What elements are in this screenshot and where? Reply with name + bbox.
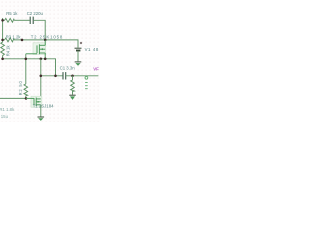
node dot L (26,98.4) xyxy=(25,97,28,100)
node dot K (72.5,75.8) xyxy=(71,75,74,78)
battery V1 xyxy=(75,42,83,62)
node dot H (45.2,58.8) xyxy=(44,58,47,61)
wire low y=75.8 left part xyxy=(41,75,63,77)
transistor T1 body box xyxy=(31,96,42,107)
node dot F (25.8,58.8) xyxy=(25,58,28,61)
T1 arrow xyxy=(38,101,40,103)
ground (R6) xyxy=(69,95,75,100)
wire R5 to C2 xyxy=(15,19,30,21)
wire low y=75.8 right part, ends at VF xyxy=(66,75,99,77)
wire C2 to corner and drop to main wire xyxy=(34,20,45,40)
transistor T2 body box xyxy=(33,43,46,55)
resistor R3 xyxy=(3,38,15,42)
transistor T2 2SK1058 xyxy=(26,44,45,54)
node dot D (45.2,39.9) xyxy=(44,39,47,42)
wire left rail top xyxy=(2,18,4,41)
svg-text:V1 48: V1 48 xyxy=(85,47,99,52)
node dot G (40.8,58.8) xyxy=(40,58,43,61)
wire mid y=58.8 xyxy=(3,59,56,76)
inductor-style rotated value marks xyxy=(85,76,88,88)
capacitor C1 xyxy=(63,72,66,79)
svg-text:R1 1.8k: R1 1.8k xyxy=(0,107,15,112)
svg-text:R3 1.2k: R3 1.2k xyxy=(6,34,22,39)
svg-text:T1 2SJ184: T1 2SJ184 xyxy=(33,104,54,109)
node dot J (55.5,75.8) xyxy=(54,75,57,78)
node dot B (2.6,39.9) xyxy=(1,39,4,42)
transistor T1 2SJ184 xyxy=(26,98,41,107)
resistor R4 (vertical, left rail) xyxy=(1,41,5,59)
main wire y=39.8 to battery corner xyxy=(15,40,78,48)
svg-text:VF: VF xyxy=(93,67,99,72)
node dot C (22,39.9) xyxy=(21,39,24,42)
node dot E (2.6,58.8) xyxy=(1,58,4,61)
T1 source lead down xyxy=(40,105,42,117)
svg-text:T2 2SK1058: T2 2SK1058 xyxy=(31,34,63,39)
T2 arrow xyxy=(41,48,43,50)
background xyxy=(0,0,100,122)
svg-text:15u: 15u xyxy=(1,114,9,119)
resistor R6 (vertical under low wire) xyxy=(71,76,75,95)
wire bottom y=98.4 from left edge xyxy=(0,97,26,99)
T2 source lead xyxy=(44,53,46,59)
ground (T1) xyxy=(38,117,45,121)
node dot I (40.8,75.8) xyxy=(40,75,43,78)
grid dots xyxy=(0,0,1,1)
resistor R5 xyxy=(3,18,15,22)
resistor R2 (vertical) xyxy=(24,84,28,98)
svg-text:C2 220u: C2 220u xyxy=(27,11,44,16)
svg-text:R2 50: R2 50 xyxy=(18,80,23,95)
T2 drain lead xyxy=(44,40,46,45)
capacitor C2 xyxy=(30,17,33,24)
node dot A (2.6,20.3) xyxy=(1,19,4,22)
svg-text:C1 3.3n: C1 3.3n xyxy=(60,65,76,70)
ground (battery) xyxy=(75,62,82,66)
wire gate drop x=25.8 xyxy=(25,54,27,84)
svg-text:R5 1k: R5 1k xyxy=(6,11,18,16)
wire T1 drain column x=40.8 xyxy=(40,59,42,99)
svg-text:R4 1k: R4 1k xyxy=(5,45,10,57)
